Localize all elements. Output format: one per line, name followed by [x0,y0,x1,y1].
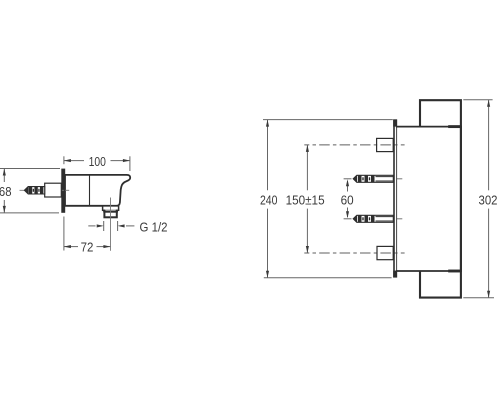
svg-text:100: 100 [89,154,106,169]
mounting plate line right [396,120,398,278]
valve body top edge [396,126,461,128]
bottom connection box (open top) [420,271,461,298]
aerator mesh band [105,210,116,212]
stud rod 2 outline [353,215,393,222]
G 1/2 dimension tick left [103,221,105,231]
dimension 240 line upper segment [267,120,269,191]
dimension 60 arrow down [346,211,349,218]
stud rod 1 crest square 1 [362,177,363,180]
stud rod 1 neck lines [376,177,394,181]
dimension 240 extension line top [263,119,393,121]
G 1/2 leader right line [126,225,134,227]
dimension 60 line lower [347,208,349,218]
dimension 240 arrow up [266,120,269,127]
outlet centerline [110,198,112,251]
G 1/2 arrow pointing left [118,224,125,227]
stud rod 1 outline [353,175,393,182]
stud rod 2 tip wedge [353,215,357,222]
dimension 60 line upper [347,181,349,192]
stud rod 1 centerline extension [397,178,403,180]
svg-text:68: 68 [0,184,12,199]
dimension 302 arrow down [487,291,490,298]
dimension 100 extension line right [129,156,131,171]
stud rod 2 neck lines [376,217,394,221]
svg-text:240: 240 [260,192,278,207]
thread block 2 [34,187,37,194]
spout body divider line [89,176,91,206]
valve body top seam thick segment [448,125,461,128]
dimension 100 line left segment [64,160,84,162]
G 1/2 dimension tick right [117,221,119,231]
dimension 72 arrow left [64,245,71,248]
stud rod 1 tip wedge [353,175,357,182]
valve body bottom edge [396,270,461,272]
dimension 240 extension line bottom [264,277,392,279]
thread crest square 2 [38,189,39,192]
dimension 72 extension line left [63,217,65,251]
dimension 68 line upper segment [3,169,5,183]
nipple centerline stub inside body [65,189,69,191]
dimension 150±15 line upper segment [306,145,308,190]
spout body outline [65,175,130,206]
mounting plate bottom cap [393,271,397,278]
stud rod 2 crest square 2 [369,217,370,220]
port 2 centerline dash-dot [304,252,404,254]
dimension 72 line left segment [64,246,78,248]
svg-text:60: 60 [341,192,354,207]
dimension 72 line right segment [97,246,111,248]
dimension 68 extension line bottom [0,212,59,214]
dimension 302 line lower segment [488,209,490,298]
dimension 100 arrow right [123,159,130,162]
inlet nipple threaded body [24,187,44,194]
dimension 150±15 arrow down [306,246,309,253]
stud rod 2 centerline extension [397,218,403,220]
dimension 240 arrow down [266,271,269,278]
svg-text:72: 72 [81,240,94,255]
mounting plate top cap [393,119,397,126]
dimension 72 arrow right [103,245,110,248]
stud rod 2 crest square 1 [362,217,363,220]
dimension 100 arrow left [64,159,71,162]
dimension 240 line lower segment [267,209,269,278]
stud rod 1 thread block 3 [371,176,375,183]
svg-text:150±15: 150±15 [286,192,325,207]
valve body bottom seam thick segment [448,270,461,273]
thread block 3 [40,187,43,194]
dimension 68 arrow up [3,169,6,176]
svg-text:G 1/2: G 1/2 [140,220,168,235]
dimension 302 line upper segment [488,100,490,191]
stud rod 1 crest square 2 [369,177,370,180]
dimension 302 extension line bottom [463,297,494,299]
dimension 100 line right segment [111,160,130,162]
port 2 box [377,246,393,259]
port 1 centerline dash-dot [304,144,404,146]
dimension 150±15 arrow up [306,145,309,152]
dimension 60 arrow up [346,179,349,186]
stud rod 1 thread block 1 [358,176,362,183]
stud rod 2 thread block 2 [365,216,369,223]
aerator cup [104,212,116,218]
stud rod 2 thread block 3 [371,216,375,223]
aerator corner right [116,210,118,212]
stud rod 1 thread block 2 [365,176,369,183]
top connection box (open bottom) [420,100,461,127]
G 1/2 arrow pointing right [97,224,104,227]
svg-text:302: 302 [479,192,498,207]
dimension 68 extension line top [0,168,60,170]
inlet nipple shank [45,183,62,197]
dimension 60 tick upper [344,178,352,180]
inlet nipple centerline [20,189,70,191]
dimension 150±15 line lower segment [306,209,308,253]
dimension 100 extension line left [63,156,65,164]
dimension 60 tick lower [344,218,352,220]
dimension 302 extension line top [463,99,492,101]
thread crest square 1 [33,189,34,192]
aerator corner left [103,210,105,212]
thread block 1 [29,187,32,194]
dimension 68 arrow down [3,206,6,213]
aerator collar [103,206,119,210]
G 1/2 leader left line [88,225,95,227]
wall escutcheon plate (side view) [61,169,65,213]
mounting plate line left [393,120,395,278]
stud rod 2 thread block 1 [358,216,362,223]
inlet nipple tip wedge [24,186,28,194]
dimension 302 arrow up [487,100,490,107]
dimension 68 line lower segment [3,200,5,213]
valve body right edge [460,126,462,272]
port 1 box [377,138,394,151]
